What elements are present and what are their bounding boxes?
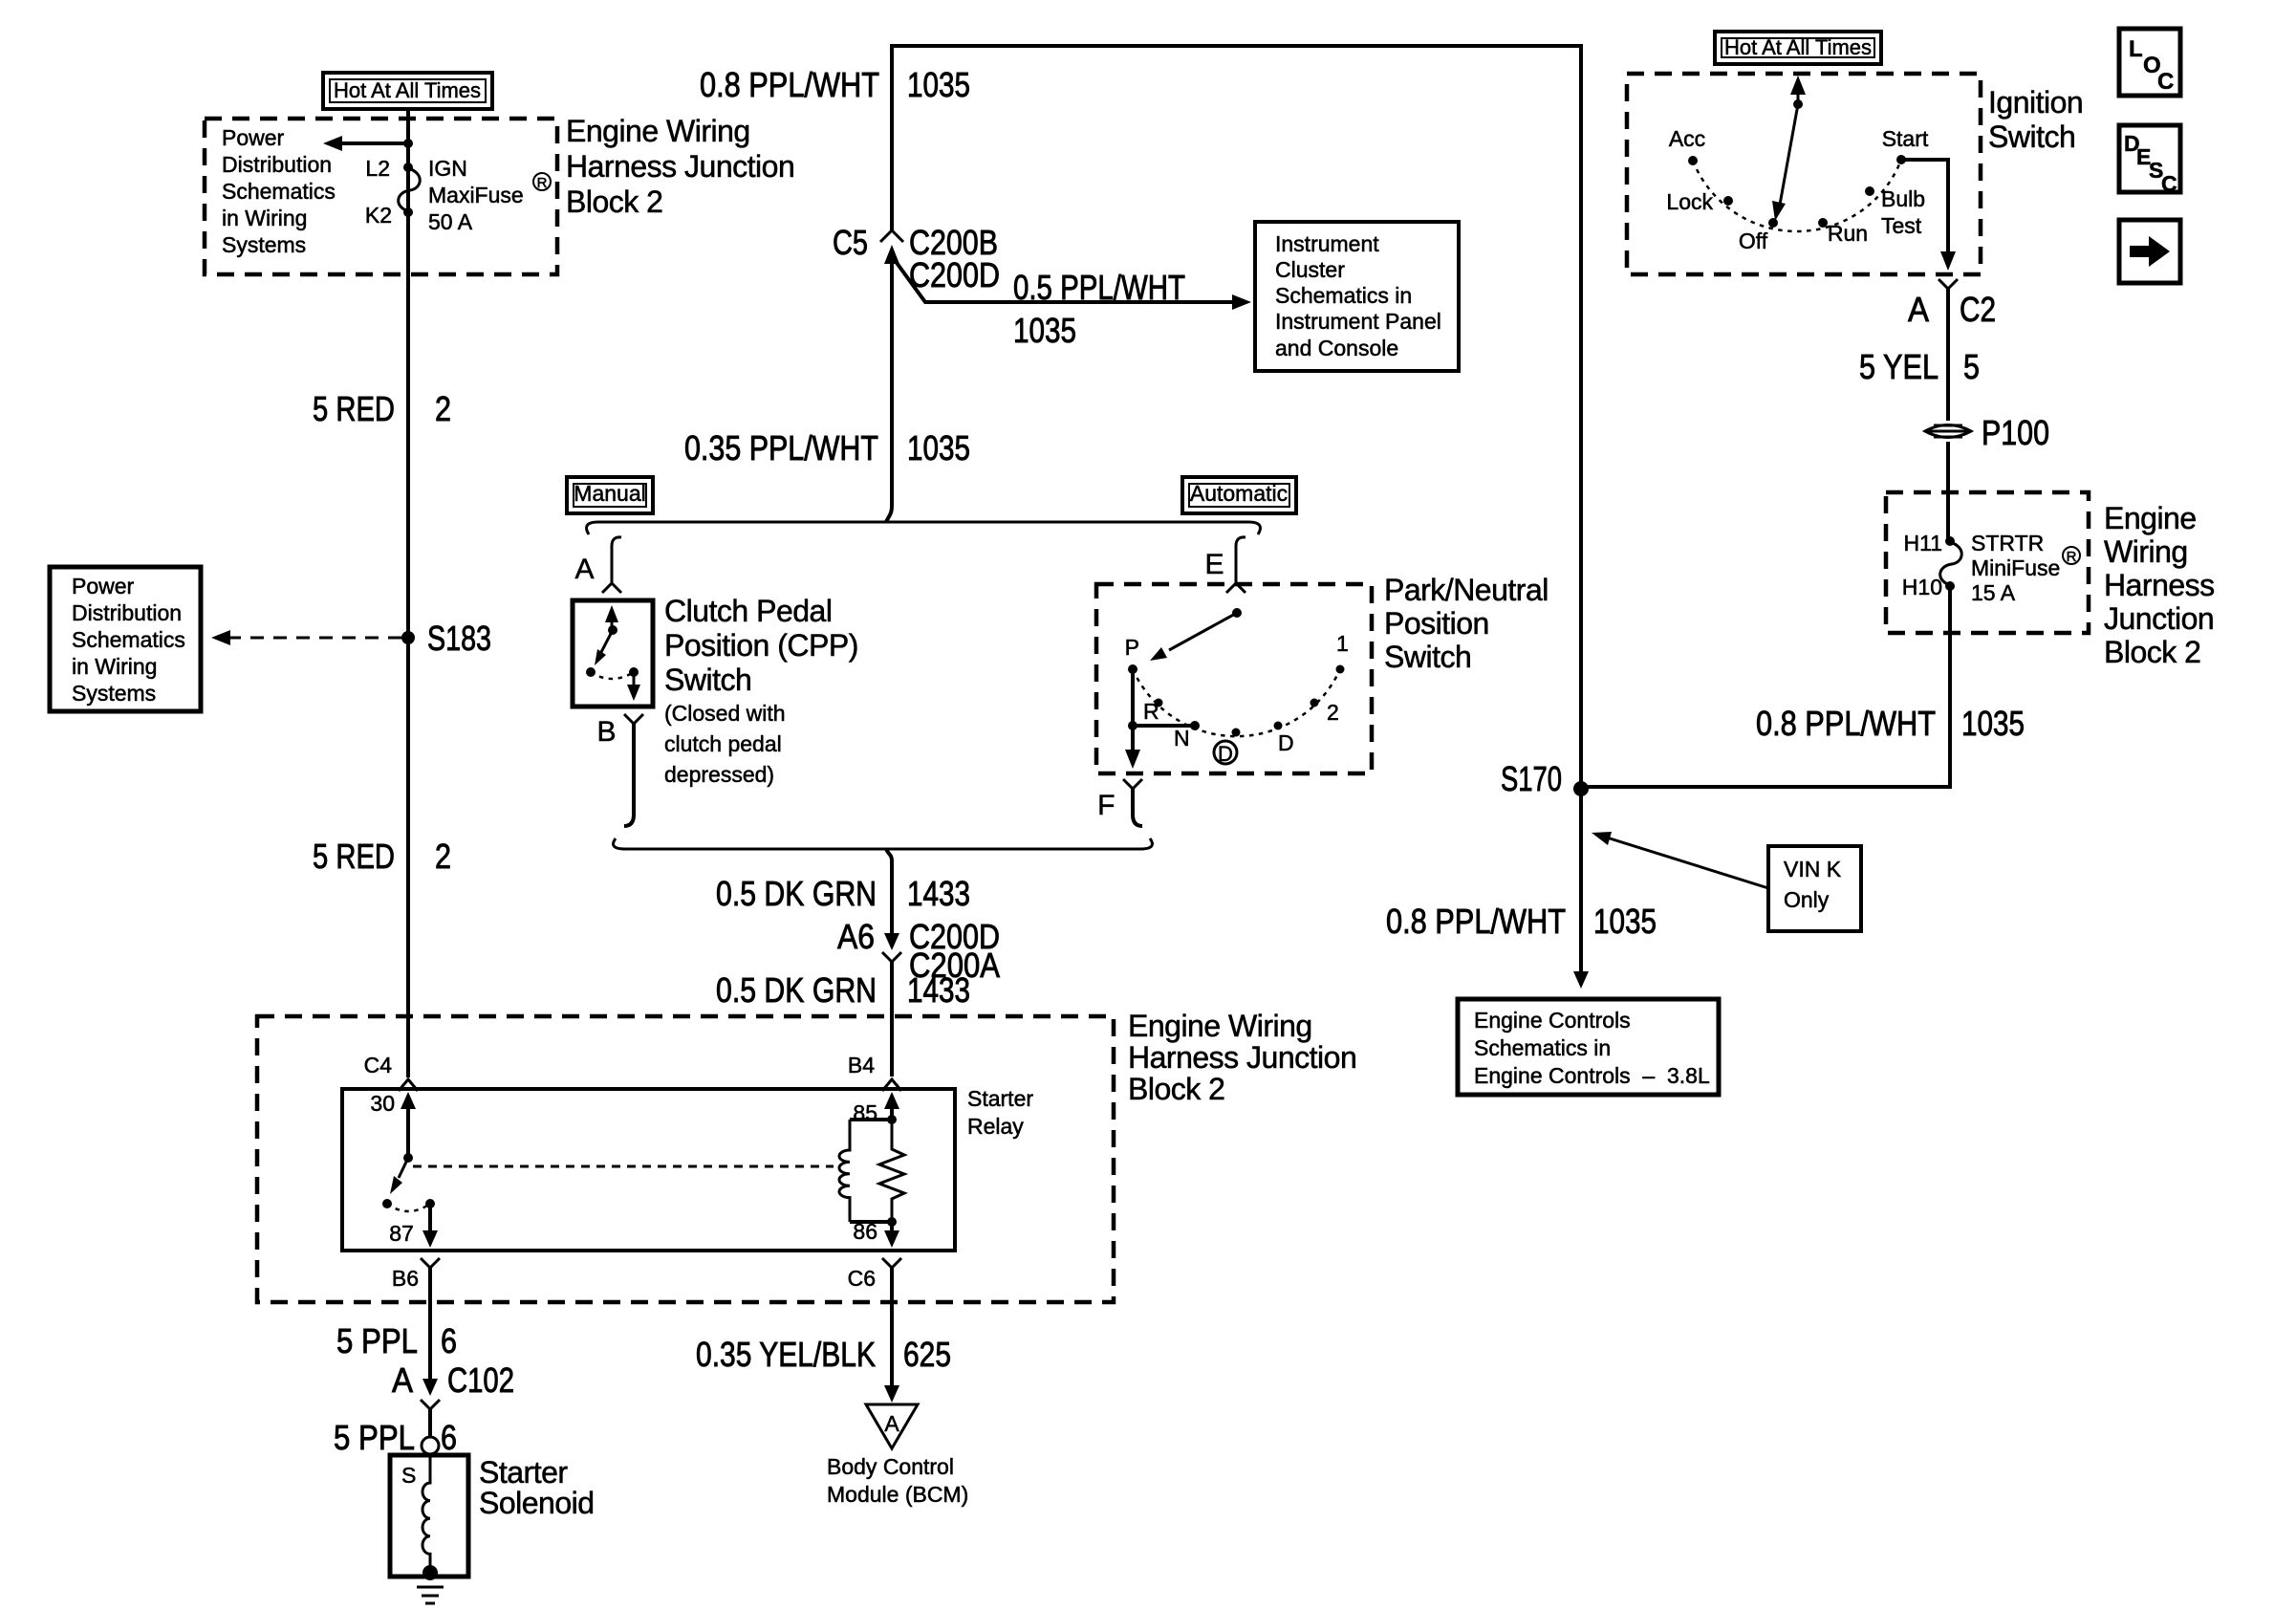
svg-text:A6: A6: [837, 917, 875, 956]
svg-text:Power: Power: [72, 574, 135, 598]
svg-text:S170: S170: [1501, 759, 1562, 798]
svg-text:MaxiFuse: MaxiFuse: [428, 183, 524, 207]
svg-text:Switch: Switch: [1384, 640, 1471, 674]
svg-text:1: 1: [1336, 631, 1349, 656]
svg-text:and Console: and Console: [1275, 336, 1398, 360]
svg-text:2: 2: [435, 389, 451, 428]
svg-text:0.8 PPL/WHT: 0.8 PPL/WHT: [1386, 902, 1566, 941]
svg-text:86: 86: [853, 1219, 877, 1244]
svg-text:Block 2: Block 2: [2104, 635, 2200, 669]
svg-text:Junction: Junction: [2104, 601, 2214, 636]
svg-text:0.35 PPL/WHT: 0.35 PPL/WHT: [684, 428, 878, 468]
svg-text:C: C: [2157, 69, 2174, 95]
svg-text:0.5 DK GRN: 0.5 DK GRN: [716, 970, 877, 1010]
svg-text:P: P: [1125, 635, 1139, 660]
svg-text:Lock: Lock: [1666, 189, 1713, 214]
svg-text:IGN: IGN: [428, 156, 467, 181]
svg-text:E: E: [1204, 549, 1224, 580]
svg-text:VIN K: VIN K: [1784, 857, 1842, 881]
svg-text:S183: S183: [427, 619, 491, 658]
svg-text:Instrument Panel: Instrument Panel: [1275, 309, 1441, 334]
svg-text:Hot At All Times: Hot At All Times: [1724, 35, 1872, 59]
svg-text:Position: Position: [1384, 606, 1489, 641]
svg-text:clutch pedal: clutch pedal: [664, 731, 782, 756]
svg-text:Harness: Harness: [2104, 568, 2215, 602]
svg-text:STRTR: STRTR: [1971, 531, 2044, 555]
svg-text:6: 6: [441, 1418, 457, 1457]
svg-text:Schematics in: Schematics in: [1275, 283, 1412, 308]
svg-text:Starter: Starter: [479, 1455, 568, 1490]
svg-text:85: 85: [853, 1100, 877, 1125]
svg-text:A: A: [574, 554, 594, 585]
svg-text:0.8 PPL/WHT: 0.8 PPL/WHT: [1756, 704, 1936, 743]
svg-text:Engine Controls – 3.8L: Engine Controls – 3.8L: [1474, 1063, 1710, 1088]
svg-text:Manual: Manual: [574, 481, 645, 506]
svg-text:Schematics: Schematics: [72, 627, 185, 652]
svg-text:Position (CPP): Position (CPP): [664, 628, 858, 663]
svg-text:1433: 1433: [907, 874, 970, 913]
svg-text:C: C: [2161, 171, 2177, 196]
svg-text:Relay: Relay: [967, 1114, 1024, 1139]
svg-text:C200D: C200D: [909, 255, 1000, 294]
svg-text:B: B: [596, 716, 616, 748]
svg-text:Schematics in: Schematics in: [1474, 1035, 1611, 1060]
svg-text:2: 2: [435, 837, 451, 876]
svg-text:Cluster: Cluster: [1275, 257, 1345, 282]
svg-text:C4: C4: [364, 1053, 393, 1077]
svg-text:Engine Wiring: Engine Wiring: [1128, 1009, 1312, 1043]
svg-text:15 A: 15 A: [1971, 580, 2016, 605]
svg-text:30: 30: [370, 1091, 395, 1116]
svg-text:Solenoid: Solenoid: [479, 1486, 595, 1520]
svg-text:5 RED: 5 RED: [313, 389, 395, 428]
svg-text:K2: K2: [365, 203, 392, 228]
svg-text:5 YEL: 5 YEL: [1859, 347, 1939, 386]
svg-text:1433: 1433: [907, 970, 970, 1010]
svg-text:D: D: [1278, 730, 1294, 755]
svg-text:0.5 DK GRN: 0.5 DK GRN: [716, 874, 877, 913]
svg-text:87: 87: [389, 1221, 414, 1246]
svg-text:L2: L2: [365, 156, 390, 181]
svg-text:C6: C6: [848, 1266, 876, 1291]
svg-text:Systems: Systems: [222, 232, 306, 257]
svg-text:Automatic: Automatic: [1190, 481, 1288, 506]
svg-text:Engine Controls: Engine Controls: [1474, 1008, 1631, 1033]
svg-text:Systems: Systems: [72, 681, 156, 706]
svg-text:C2: C2: [1960, 290, 1996, 329]
svg-text:0.8 PPL/WHT: 0.8 PPL/WHT: [700, 65, 879, 104]
svg-text:Block 2: Block 2: [566, 185, 662, 219]
svg-text:P100: P100: [1982, 413, 2049, 452]
svg-text:1035: 1035: [907, 428, 970, 468]
svg-text:Start: Start: [1882, 126, 1929, 151]
svg-text:in Wiring: in Wiring: [222, 206, 307, 230]
svg-text:B6: B6: [392, 1266, 419, 1291]
svg-text:Harness Junction: Harness Junction: [1128, 1040, 1356, 1075]
svg-text:Distribution: Distribution: [72, 600, 182, 625]
svg-text:Off: Off: [1739, 228, 1768, 253]
svg-text:1035: 1035: [1961, 704, 2025, 743]
svg-text:Starter: Starter: [967, 1086, 1033, 1111]
svg-text:Switch: Switch: [664, 663, 751, 697]
svg-text:A: A: [392, 1360, 413, 1400]
svg-text:H11: H11: [1904, 531, 1943, 555]
svg-text:Schematics: Schematics: [222, 179, 336, 204]
svg-text:50 A: 50 A: [428, 209, 473, 234]
svg-text:F: F: [1097, 790, 1115, 821]
svg-text:1035: 1035: [1593, 902, 1657, 941]
svg-text:Module (BCM): Module (BCM): [827, 1482, 968, 1507]
svg-text:H10: H10: [1902, 575, 1942, 599]
svg-text:Hot At All Times: Hot At All Times: [334, 78, 481, 102]
svg-text:1035: 1035: [907, 65, 970, 104]
svg-text:5 PPL: 5 PPL: [334, 1418, 415, 1457]
svg-text:S: S: [401, 1463, 416, 1488]
svg-text:Test: Test: [1881, 213, 1922, 238]
svg-text:Distribution: Distribution: [222, 152, 332, 177]
svg-text:R: R: [2067, 549, 2077, 565]
svg-text:5: 5: [1963, 347, 1980, 386]
svg-text:in Wiring: in Wiring: [72, 654, 157, 679]
svg-text:Wiring: Wiring: [2104, 534, 2188, 569]
svg-text:0.35 YEL/BLK: 0.35 YEL/BLK: [696, 1335, 876, 1374]
svg-text:5 RED: 5 RED: [313, 837, 395, 876]
svg-text:Instrument: Instrument: [1275, 231, 1379, 256]
svg-text:Engine: Engine: [2104, 501, 2197, 535]
svg-text:625: 625: [903, 1335, 951, 1374]
svg-text:Power: Power: [222, 125, 285, 150]
svg-text:R: R: [1143, 699, 1159, 724]
svg-text:6: 6: [441, 1321, 457, 1360]
svg-text:B4: B4: [848, 1053, 875, 1077]
svg-text:L: L: [2129, 36, 2143, 62]
svg-text:Switch: Switch: [1988, 120, 2075, 154]
svg-text:N: N: [1174, 726, 1190, 751]
svg-text:0.5 PPL/WHT: 0.5 PPL/WHT: [1013, 268, 1185, 307]
svg-text:Ignition: Ignition: [1988, 85, 2083, 120]
svg-text:Harness Junction: Harness Junction: [566, 149, 794, 184]
svg-text:A: A: [1908, 290, 1929, 329]
svg-text:Block 2: Block 2: [1128, 1072, 1224, 1106]
svg-text:Bulb: Bulb: [1881, 186, 1925, 211]
svg-text:C5: C5: [833, 223, 868, 262]
svg-text:Park/Neutral: Park/Neutral: [1384, 573, 1549, 607]
svg-text:(Closed with: (Closed with: [664, 701, 786, 726]
svg-text:R: R: [537, 175, 548, 191]
svg-text:Acc: Acc: [1669, 126, 1705, 151]
svg-text:A: A: [884, 1411, 899, 1436]
svg-text:5 PPL: 5 PPL: [336, 1321, 418, 1360]
svg-text:1035: 1035: [1013, 311, 1076, 350]
svg-text:Body Control: Body Control: [827, 1454, 954, 1479]
svg-text:Clutch Pedal: Clutch Pedal: [664, 594, 832, 628]
svg-text:2: 2: [1327, 700, 1339, 725]
svg-text:MiniFuse: MiniFuse: [1971, 555, 2060, 580]
svg-text:Run: Run: [1828, 221, 1868, 246]
svg-text:C102: C102: [447, 1360, 514, 1400]
svg-text:Engine Wiring: Engine Wiring: [566, 114, 750, 148]
svg-text:Only: Only: [1784, 887, 1830, 912]
svg-text:D: D: [1218, 742, 1233, 766]
svg-text:depressed): depressed): [664, 762, 774, 787]
